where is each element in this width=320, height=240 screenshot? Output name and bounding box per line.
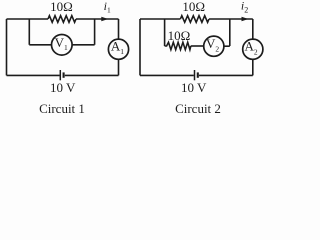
wire: circuit 2 right side [252,19,254,75]
svg-text:i1: i1 [104,0,111,15]
wire: branch resistor to voltmeter V2 [191,45,204,47]
current arrow i2 (circuit 2) [242,17,249,21]
wire: circuit 1 top left segment [7,18,49,20]
wire: circuit 2 top left segment [140,18,180,20]
wire: circuit 2 bottom right (from battery) [199,74,253,76]
svg-text:10Ω: 10Ω [50,0,73,14]
svg-text:Circuit 2: Circuit 2 [175,101,221,116]
current arrow i1 (circuit 1) [101,17,108,21]
svg-text:10Ω: 10Ω [168,28,191,43]
wire: circuit 2 left side [139,19,141,75]
wire: voltmeter V2 to branch right vertical [224,45,230,47]
battery B1 10V long plate (circuit 1) [59,70,61,80]
voltmeter V1 circle [52,35,73,56]
svg-text:Circuit 1: Circuit 1 [39,101,85,116]
battery B1 10V short thick plate (circuit 1) [63,72,65,77]
svg-text:10Ω: 10Ω [182,0,205,14]
wire: circuit 1 bottom left (to battery) [7,74,60,76]
wire: circuit 1 bottom right (from battery) [65,74,119,76]
svg-text:10 V: 10 V [50,80,76,95]
svg-text:10 V: 10 V [181,80,207,95]
voltmeter V2 circle [204,36,224,56]
wire: voltmeter branch left vertical (circuit 1) [28,19,30,45]
battery B2 10V short thick plate (circuit 2) [197,72,199,77]
wire: circuit 2 bottom left (to battery) [140,74,194,76]
wire: voltmeter branch bottom horizontal (circuit 1) [29,44,94,46]
wire: circuit 2 top right segment [209,18,253,20]
wire: parallel branch right vertical (circuit 2) [229,19,231,46]
svg-text:i2: i2 [241,0,248,14]
wire: circuit 1 right side [118,19,120,75]
wire: circuit 1 top right segment [76,18,119,20]
wire: parallel branch left vertical (circuit 2) [164,19,166,46]
wire: circuit 1 left side [6,19,8,75]
battery B2 10V long plate (circuit 2) [194,70,196,80]
resistor R1 10Ω (circuit 1) [48,16,76,23]
ammeter A2 circle [243,39,263,59]
resistor R2 10Ω (circuit 2 top) [180,16,209,23]
resistor R3 10Ω (circuit 2 branch) [165,42,191,49]
wire: voltmeter branch right vertical (circuit 1) [94,19,96,45]
ammeter A1 circle [108,39,128,59]
